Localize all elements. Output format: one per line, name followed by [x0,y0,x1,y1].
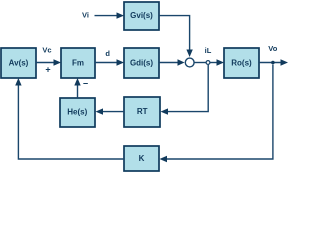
svg-text:K: K [139,154,145,163]
block RT [124,97,160,127]
svg-text:Vo: Vo [268,44,277,53]
wire Gdi output to summing node [159,59,185,65]
svg-text:iL: iL [205,46,212,55]
svg-text:He(s): He(s) [67,108,87,117]
wire K output to Av input [15,78,124,159]
block Ro(s) [224,48,259,78]
label Vc [42,46,51,55]
label plus sign [45,65,50,75]
wire Ro output [259,59,288,65]
wire summing node to sense node [194,62,206,64]
svg-text:+: + [45,65,50,75]
svg-text:Fm: Fm [72,59,84,68]
svg-text:Av(s): Av(s) [9,59,29,68]
wire Vi input [95,12,125,18]
wire Gvi output to summing node [159,16,193,57]
node Vo junction dot [271,61,275,65]
summing junction circle [185,58,194,67]
svg-text:RT: RT [137,107,148,116]
label d [105,49,110,58]
block He(s) [60,98,95,127]
svg-text:Vi: Vi [82,11,89,20]
wire He output up to Fm [74,78,80,98]
svg-text:d: d [105,49,110,58]
current sense node circle [206,61,210,65]
block Gvi(s) [124,2,159,30]
label Vi [82,11,89,20]
svg-text:−: − [83,79,88,89]
wire Av output to Fm [36,59,61,65]
wire Fm output to Gdi [95,59,124,65]
svg-text:Gvi(s): Gvi(s) [130,11,153,20]
wire RT output to He [96,108,125,114]
label Vo [268,44,277,53]
svg-text:Gdi(s): Gdi(s) [130,59,153,68]
block Gdi(s) [124,48,159,78]
block Av(s) [1,48,36,78]
block K [124,146,159,171]
wire sense node to Ro [210,59,224,65]
label minus sign [83,79,88,89]
wire sense node down to RT [161,65,209,115]
wire Vo feedback down to K [160,65,273,163]
block Fm [61,48,95,78]
label iL [205,46,212,55]
svg-text:Vc: Vc [42,46,51,55]
svg-text:Ro(s): Ro(s) [231,59,252,68]
